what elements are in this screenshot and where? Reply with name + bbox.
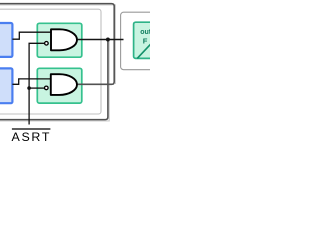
gate1 inverted-input bubble [45,42,49,46]
svg-text:F: F [143,36,148,45]
right module container box (gray, clipped at right) [121,12,181,69]
clock-edge diagonal inside teal box [137,43,151,58]
NAND gate 1 body [51,29,77,50]
wire: bottom output run (off left), corner, up to junction [0,40,108,120]
wire: lower input to gate2 input A [12,79,51,84]
svg-text:ASRT: ASRT [12,130,52,144]
junction dot: output run branch [106,38,110,42]
ASRT overline [12,128,51,130]
svg-text:out: out [140,29,150,36]
green box: top NAND module [37,23,82,57]
wire: gate1 output to right module [76,39,124,41]
gate2 inverted-input bubble [45,86,49,90]
blue box: upper input block (clipped at left) [0,23,12,57]
junction dot on riser [27,86,31,90]
wire: upper input to gate1 input A [12,32,51,39]
wire: branch from riser junction to gate2 bubble [29,87,44,89]
green box: bottom NAND module [37,68,82,103]
blue box: lower input block (clipped at left) [0,68,12,103]
NAND gate 2 body [51,74,77,95]
wire: riser feeding gate1 bubble, down to ASRT stub [29,43,44,124]
wire: top feedback (runs off left), corner, down right side to Qbar [0,4,114,85]
teal box: output F/F module (clipped at right) [134,22,174,58]
shadow echoes of dark frame wires [0,5,115,121]
module container box (light gray, clipped at left) [0,9,101,114]
